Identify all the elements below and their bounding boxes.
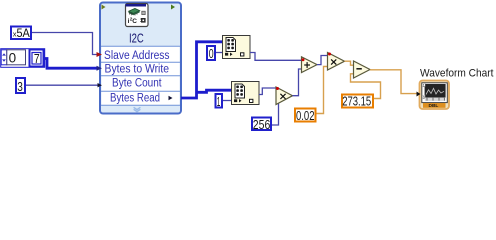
svg-text:Bytes Read: Bytes Read: [110, 92, 160, 104]
constant 0.02: [295, 108, 316, 123]
wire constant 256 to multiply M1 bottom input: [272, 100, 279, 125]
wire multiply M1 output to add bottom input: [293, 69, 303, 96]
wire multiply M2 output to subtract top input: [345, 61, 355, 65]
svg-text:7: 7: [34, 51, 40, 66]
svg-text:Bytes to Write: Bytes to Write: [105, 63, 170, 75]
wire Index Array 2 output to multiply M1 top input: [259, 88, 276, 95]
Index Array 1 (upper): [223, 36, 251, 59]
array constant shell: [1, 49, 45, 68]
constant 1 (index of second Index Array): [216, 94, 223, 109]
svg-text:1: 1: [217, 94, 221, 109]
svg-text:273.15: 273.15: [342, 93, 371, 108]
wire 1 to index input: [223, 100, 232, 102]
svg-text:0: 0: [423, 95, 425, 99]
subtract node: [354, 61, 371, 78]
wire from 5A constant to Slave Address: [32, 33, 98, 55]
Slave Address input arrow: [97, 52, 103, 57]
svg-text:0: 0: [9, 51, 17, 66]
wire Index Array 1 output to add: [250, 53, 302, 61]
constant 273.15: [342, 93, 373, 108]
array constant element 7: [30, 50, 44, 67]
I2C expand arrow top-left: [102, 5, 106, 10]
svg-text:0: 0: [209, 46, 214, 61]
constant 256: [252, 117, 271, 132]
svg-text:C: C: [132, 18, 137, 25]
svg-text:5A: 5A: [17, 28, 31, 40]
svg-text:I2C: I2C: [129, 31, 144, 45]
svg-text:DBL: DBL: [429, 103, 439, 109]
Byte Count input arrow: [98, 83, 103, 87]
svg-text:Waveform Chart: Waveform Chart: [420, 68, 494, 80]
constant 0 (index of first Index Array): [207, 46, 215, 61]
wire 0 to index input: [216, 52, 223, 54]
Index Array 2 (lower): [232, 82, 260, 105]
small gray chip in icon: [142, 11, 145, 14]
array wire (thick) from array constant to Bytes to Write: [45, 59, 99, 69]
svg-text:1: 1: [423, 83, 425, 87]
wire add output to multiply M2 top input: [317, 56, 328, 65]
svg-text:3: 3: [17, 79, 23, 94]
wire subtract output to Waveform Chart terminal: [370, 70, 417, 94]
svg-text:0.02: 0.02: [296, 108, 315, 123]
wire constant 273.15 to subtract bottom input: [351, 74, 381, 99]
tiny chip bottom-right of icon: [141, 18, 146, 23]
I2C Express VI body: [100, 3, 181, 114]
multiply M1: [276, 87, 293, 105]
I2C icon: [126, 4, 149, 27]
constant 3: [16, 78, 25, 94]
svg-text:Byte Count: Byte Count: [112, 78, 162, 90]
Bytes Read array wire trunk: [181, 42, 232, 98]
I2C expand chevron bottom: [134, 107, 141, 111]
add node: [302, 57, 318, 73]
Bytes Read output arrow: [169, 96, 173, 101]
svg-text:Slave Address: Slave Address: [104, 50, 170, 62]
svg-text:256: 256: [253, 117, 270, 132]
array constant index value 0: [7, 50, 26, 66]
Waveform Chart terminal: [417, 81, 450, 110]
constant x5A: [11, 27, 31, 40]
I2C expand arrow top-right: [171, 5, 175, 10]
array constant index spinner: [1, 50, 7, 65]
Bytes to Write input arrow: [97, 66, 103, 71]
multiply M2: [328, 53, 345, 71]
wire constant 0.02 to multiply M2 bottom input: [317, 67, 329, 114]
wire from constant 3 to Byte Count: [26, 84, 98, 86]
green chip in icon: [129, 8, 140, 13]
